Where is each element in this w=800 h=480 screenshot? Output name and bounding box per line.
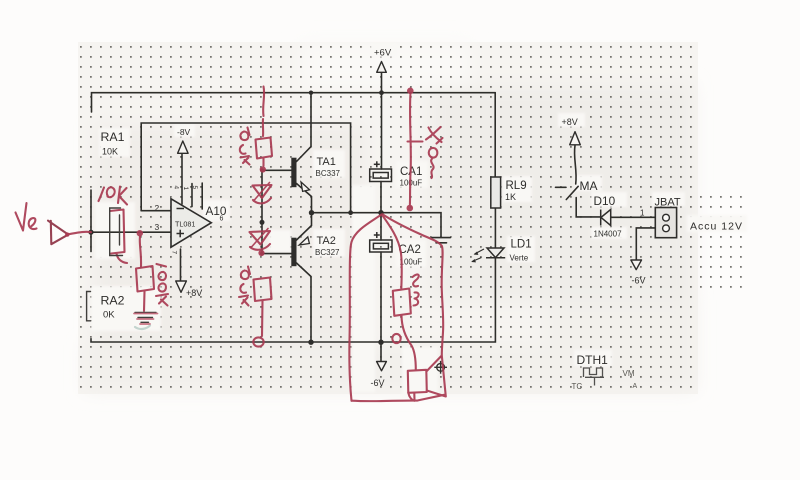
svg-text:Verte: Verte xyxy=(510,253,529,262)
svg-text:DTH1: DTH1 xyxy=(577,353,609,367)
svg-text:A: A xyxy=(633,383,638,390)
svg-text:-6V: -6V xyxy=(371,378,385,388)
svg-text:4: 4 xyxy=(173,186,180,190)
svg-text:LD1: LD1 xyxy=(511,239,532,251)
svg-text:1: 1 xyxy=(182,187,189,191)
svg-text:5: 5 xyxy=(191,186,198,190)
svg-text:1N4007: 1N4007 xyxy=(594,230,623,239)
svg-text:100uF: 100uF xyxy=(400,258,423,267)
svg-text:RA1: RA1 xyxy=(101,130,125,144)
svg-text:-8V: -8V xyxy=(177,127,191,137)
svg-text:VM: VM xyxy=(623,369,635,378)
svg-text:A10: A10 xyxy=(206,204,227,218)
svg-text:10K: 10K xyxy=(102,147,118,157)
svg-text:-6V: -6V xyxy=(632,275,646,285)
svg-text:2: 2 xyxy=(155,203,160,213)
svg-text:TA2: TA2 xyxy=(317,235,336,247)
svg-text:BC337: BC337 xyxy=(316,169,341,178)
svg-text:+6V: +6V xyxy=(374,47,392,58)
svg-text:D10: D10 xyxy=(594,194,616,208)
svg-text:+8V: +8V xyxy=(562,117,578,127)
svg-text:Accu 12V: Accu 12V xyxy=(690,220,743,232)
svg-text:RL9: RL9 xyxy=(506,180,527,192)
svg-text:3: 3 xyxy=(155,222,160,232)
svg-text:6: 6 xyxy=(220,216,224,223)
svg-text:TL081: TL081 xyxy=(175,219,195,228)
svg-text:MA: MA xyxy=(580,179,598,193)
svg-text:1: 1 xyxy=(640,209,645,218)
svg-text:0K: 0K xyxy=(103,310,115,321)
svg-text:TA1: TA1 xyxy=(317,156,336,168)
svg-text:7: 7 xyxy=(171,251,178,255)
svg-text:+8V: +8V xyxy=(186,288,202,298)
svg-text:TC: TC xyxy=(572,382,583,391)
svg-text:JBAT: JBAT xyxy=(655,197,681,209)
svg-text:BC327: BC327 xyxy=(315,248,340,257)
svg-text:1K: 1K xyxy=(505,192,516,202)
svg-text:RA2: RA2 xyxy=(101,294,125,308)
